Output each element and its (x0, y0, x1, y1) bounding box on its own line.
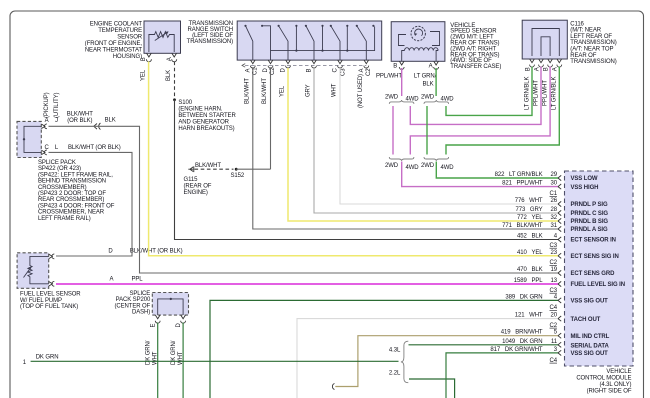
TRS pin terminals row (242, 60, 369, 68)
svg-text:BLK/WHT: BLK/WHT (67, 112, 93, 118)
label 2WD / 4WD (385, 95, 419, 103)
svg-text:ECT SENSOR IN: ECT SENSOR IN (571, 238, 616, 244)
svg-text:CONTROL MODULE: CONTROL MODULE (576, 376, 631, 382)
wire WHT 121 from bottom to VCM (297, 319, 558, 398)
svg-text:2WD: 2WD (421, 163, 435, 169)
TRS switch 5 (pin A not used) (356, 25, 375, 60)
VSS pin A terminal (429, 61, 439, 69)
svg-text:VSS SIG OUT: VSS SIG OUT (571, 351, 609, 357)
svg-text:C1: C1 (550, 191, 558, 197)
svg-text:A: A (553, 67, 559, 71)
svg-text:821 PPL/WHT: 821 PPL/WHT (502, 181, 543, 187)
svg-text:B: B (141, 57, 147, 61)
brace split 2WD/4WD (LT GRN/BLK) (424, 100, 449, 104)
svg-text:26: 26 (551, 198, 558, 204)
TRS switch 4 (pin C white) (330, 25, 349, 60)
VCM pin function names (571, 176, 625, 357)
ground arrow G115 (188, 166, 194, 172)
svg-text:28: 28 (551, 207, 558, 213)
VCM box (565, 171, 634, 366)
svg-text:VEHICLE: VEHICLE (606, 369, 631, 375)
svg-text:TACH OUT: TACH OUT (571, 317, 601, 323)
TRS switch 3 (pin B gray) (305, 25, 324, 60)
svg-text:PACK SP200: PACK SP200 (116, 297, 151, 303)
wire BLK/WHT TRS pin D to S152 (270, 68, 272, 169)
svg-text:(M/T: NEAR: (M/T: NEAR (570, 28, 601, 34)
svg-text:A: A (45, 118, 49, 124)
svg-text:YEL: YEL (280, 85, 286, 97)
svg-text:BLK: BLK (166, 70, 172, 81)
svg-text:2WD: 2WD (385, 95, 399, 101)
wire LT GRN/BLK 822 merged to VCM (436, 162, 558, 179)
svg-text:470 BLK: 470 BLK (517, 267, 543, 273)
svg-text:A: A (359, 69, 365, 73)
svg-text:SPLICE: SPLICE (129, 291, 150, 297)
svg-text:A: A (534, 67, 540, 71)
label BLK/WHT (OR BLK) stacked (67, 112, 93, 124)
svg-text:776 WHT: 776 WHT (515, 198, 543, 204)
splice pack SP200 box (152, 293, 188, 316)
svg-text:GRY: GRY (306, 84, 312, 97)
svg-text:2WD: 2WD (385, 163, 399, 169)
wire PPL/WHT 4WD branch to C116 pin A (410, 67, 541, 125)
svg-text:NEAR THERMOSTAT: NEAR THERMOSTAT (85, 47, 143, 53)
SP422 internal splice bar (23, 126, 42, 152)
svg-text:(NOT USED): (NOT USED) (358, 74, 364, 108)
SP200 pin D terminal (176, 315, 186, 327)
svg-text:410 YEL: 410 YEL (517, 250, 543, 256)
svg-text:TRANSMISSION: TRANSMISSION (189, 21, 233, 27)
svg-text:FUEL LEVEL SENSOR: FUEL LEVEL SENSOR (20, 292, 81, 298)
svg-text:4WD: 4WD (406, 97, 420, 103)
svg-text:BLK: BLK (422, 81, 433, 87)
svg-text:A: A (429, 64, 433, 70)
wire DK GRN 389 from bottom to VCM (210, 300, 558, 398)
label 2WD / 4WD (421, 163, 454, 171)
svg-text:(SP422: LEFT FRAME RAIL,: (SP422: LEFT FRAME RAIL, (38, 172, 113, 178)
svg-text:TRANSMISSION): TRANSMISSION) (187, 39, 233, 45)
svg-text:DK GRN: DK GRN (36, 354, 59, 360)
svg-text:MIL IND CTRL: MIL IND CTRL (571, 334, 610, 340)
svg-text:(FRONT OF ENGINE,: (FRONT OF ENGINE, (85, 41, 143, 47)
TRS internal common bus (271, 27, 375, 51)
wire PPL fuel sensor pin A to VCM 1589 (56, 283, 558, 285)
pin letters C L (44, 145, 58, 151)
pin letter D + label BLK/WHT (OR BLK) (108, 249, 182, 255)
svg-text:ECT SENS SIG IN: ECT SENS SIG IN (571, 254, 619, 260)
svg-text:C1: C1 (253, 67, 259, 75)
svg-text:LEFT REAR OF: LEFT REAR OF (570, 34, 612, 40)
svg-text:B: B (525, 67, 531, 71)
brace split 2WD/4WD (PPL/WHT) (389, 100, 414, 104)
svg-text:31: 31 (551, 223, 558, 229)
svg-text:VSS SIG OUT: VSS SIG OUT (571, 299, 609, 305)
svg-text:11: 11 (551, 339, 558, 345)
svg-text:LT GRN/: LT GRN/ (414, 74, 437, 80)
svg-text:(REAR OF: (REAR OF (184, 184, 212, 190)
svg-text:SPLICE PACK: SPLICE PACK (38, 160, 76, 166)
svg-text:(OR BLK): (OR BLK) (67, 118, 92, 124)
svg-text:LEFT FRAME RAIL): LEFT FRAME RAIL) (38, 216, 91, 222)
wire GRY TRS pin B to VCM 773 (314, 68, 558, 213)
svg-text:PPL: PPL (132, 276, 144, 282)
svg-text:LT GRN/BLK: LT GRN/BLK (524, 76, 530, 110)
svg-text:(UTILITY): (UTILITY) (54, 92, 60, 118)
VCM label text (576, 369, 631, 394)
wire DK GRN 1049 4.3L branch to VCM (409, 344, 559, 346)
svg-text:PRNDL P SIG: PRNDL P SIG (571, 202, 608, 208)
svg-text:20: 20 (551, 313, 558, 319)
svg-text:29: 29 (551, 172, 558, 178)
wire BLK 452 S100 to VCM (175, 100, 559, 240)
svg-text:ENGINE): ENGINE) (184, 190, 208, 196)
svg-text:FUEL LEVEL SIG IN: FUEL LEVEL SIG IN (571, 282, 625, 288)
fuel level sensor box (17, 253, 49, 288)
fuel sensor pin A terminal (49, 281, 55, 286)
switch box TRS (237, 21, 382, 60)
VCM pin arrowheads (558, 175, 561, 355)
wire LT GRN/BLK VSS pin A stem (435, 68, 437, 96)
wire BRN/WHT 419 to VCM (335, 336, 558, 387)
svg-text:C3: C3 (550, 288, 558, 294)
svg-text:121 WHT: 121 WHT (515, 313, 543, 319)
wire DK GRN/WHT 817 from bottom to VCM (446, 353, 558, 398)
svg-text:C3: C3 (550, 243, 558, 249)
wire BLK/WHT dashed to ground G115 (195, 168, 234, 170)
svg-text:4WD: 4WD (441, 97, 455, 103)
wire DK GRN/WHT SP200 pin D down (182, 323, 184, 398)
svg-text:(ENGINE HARN.: (ENGINE HARN. (178, 107, 222, 113)
sensor box VSS (391, 22, 445, 62)
label 1 DK GRN (23, 354, 59, 366)
svg-text:PPL/WHT: PPL/WHT (543, 80, 549, 106)
svg-text:PRNDL C SIG: PRNDL C SIG (571, 211, 609, 217)
svg-text:SENSOR: SENSOR (117, 34, 143, 40)
svg-text:REAR CROSSMEMBER): REAR CROSSMEMBER) (38, 197, 104, 203)
C116 label text (570, 21, 616, 65)
svg-text:19: 19 (551, 267, 558, 273)
svg-text:VSS LOW: VSS LOW (571, 176, 598, 182)
svg-text:BLK/WHT: BLK/WHT (245, 78, 251, 104)
VSS pole pieces (399, 32, 440, 46)
svg-text:ECT SENS GRD: ECT SENS GRD (571, 271, 616, 277)
svg-text:A: A (167, 57, 173, 61)
svg-text:C4: C4 (550, 305, 558, 311)
wire LT GRN/BLK 4WD branch to C116 pin B (446, 67, 532, 116)
svg-text:W/ FUEL PUMP: W/ FUEL PUMP (20, 298, 62, 304)
svg-text:BLK/WHT (OR BLK): BLK/WHT (OR BLK) (68, 145, 121, 151)
svg-text:TRANSMISSION): TRANSMISSION) (570, 40, 616, 46)
ECT pin A terminal (167, 53, 177, 62)
wire LT GRN/BLK 2WD branch (426, 106, 428, 155)
TRS switch 1 (pin A) (244, 25, 270, 60)
svg-text:32: 32 (551, 215, 558, 221)
svg-text:(TOP OF FUEL TANK): (TOP OF FUEL TANK) (20, 304, 78, 310)
svg-text:A: A (245, 69, 251, 73)
ECT pin B terminal (141, 53, 151, 62)
VSS label text (450, 23, 501, 70)
inline connector on SP422-A wire (94, 123, 101, 130)
G115 label text (184, 177, 212, 196)
TRS wire color labels (rotated) (245, 74, 365, 108)
label 2WD / 4WD (421, 95, 454, 103)
svg-text:BETWEEN STARTER: BETWEEN STARTER (178, 113, 236, 119)
svg-text:J: J (55, 118, 58, 124)
wire YEL ECT pin B to VCM 410 (149, 62, 558, 256)
svg-text:VSS HIGH: VSS HIGH (571, 185, 599, 191)
wire DK GRN 2.2L branch down (409, 379, 455, 398)
VSS tone wheel (gear) (411, 26, 425, 40)
svg-text:SP422 (OR 423): SP422 (OR 423) (38, 166, 81, 172)
fuel sensor pin D terminal (49, 254, 55, 259)
svg-text:773 GRY: 773 GRY (515, 207, 542, 213)
svg-text:AND GENERATOR: AND GENERATOR (178, 120, 229, 126)
SP422 pin C terminal (41, 150, 47, 155)
wire YEL TRS pin D to VCM 772 (288, 68, 558, 221)
svg-text:30: 30 (551, 181, 558, 187)
VCM wire row labels (490, 172, 557, 364)
svg-text:BEHIND TRANSMISSION: BEHIND TRANSMISSION (38, 179, 106, 185)
svg-text:TEMPERATURE: TEMPERATURE (98, 28, 142, 34)
svg-text:RANGE SWITCH: RANGE SWITCH (188, 27, 233, 33)
svg-text:771 BLK/WHT: 771 BLK/WHT (502, 223, 543, 229)
svg-text:LT GRN/BLK: LT GRN/BLK (552, 76, 558, 110)
svg-text:BLK/WHT: BLK/WHT (262, 78, 268, 104)
S100 label text (178, 100, 236, 132)
svg-text:(CENTER OF: (CENTER OF (115, 303, 151, 309)
ECT label text (85, 22, 143, 60)
splice pack SP422 box (17, 121, 41, 157)
VSS pickup coil (402, 48, 438, 62)
svg-text:C3: C3 (341, 68, 347, 76)
wire BLK/WHT TRS pin A to VCM 771 (253, 68, 558, 229)
SP200 pin E terminal (151, 315, 161, 327)
SP200 internal splice bar (158, 298, 183, 315)
svg-text:1049 DK GRN: 1049 DK GRN (502, 339, 542, 345)
svg-text:HOUSING): HOUSING) (113, 54, 142, 60)
wire LT GRN/BLK C116 pin A return (446, 67, 559, 155)
SP422 pin A terminal (41, 124, 47, 129)
svg-text:4WD: 4WD (441, 165, 455, 171)
splice S100 (173, 98, 176, 101)
wire BLK/WHT SP422 pin C to fuel sensor pin D (49, 152, 133, 256)
svg-text:CROSSMEMBER, NEAR: CROSSMEMBER, NEAR (38, 210, 105, 216)
svg-text:PPL/WHT: PPL/WHT (533, 80, 539, 106)
svg-text:WHT: WHT (332, 83, 338, 97)
svg-text:E: E (151, 324, 157, 328)
svg-text:B: B (393, 64, 397, 70)
svg-text:G115: G115 (184, 177, 199, 183)
splice S152 (235, 168, 238, 171)
wire BLK ECT pin A dashed segment to S100 (174, 62, 176, 97)
svg-text:B: B (307, 69, 313, 73)
svg-text:BLK/WHT: BLK/WHT (195, 163, 221, 169)
svg-text:772 YEL: 772 YEL (517, 215, 543, 221)
svg-text:S100: S100 (178, 100, 192, 106)
svg-text:822 LT GRN/BLK: 822 LT GRN/BLK (495, 172, 543, 178)
brace merge 2WD/4WD (LT GRN/BLK) (424, 157, 449, 161)
svg-text:ENGINE COOLANT: ENGINE COOLANT (90, 22, 143, 28)
svg-text:PRNDL B SIG: PRNDL B SIG (571, 219, 609, 225)
svg-text:2WD: 2WD (421, 95, 435, 101)
svg-text:(A/T: NEAR TOP: (A/T: NEAR TOP (570, 47, 613, 53)
C116 internal link A-B inner (541, 37, 550, 56)
svg-text:C2: C2 (550, 260, 558, 266)
svg-text:C2: C2 (366, 68, 372, 76)
pin letters A J (45, 118, 58, 124)
svg-text:DASH): DASH) (132, 310, 150, 316)
svg-text:CROSSMEMBER): CROSSMEMBER) (38, 185, 87, 191)
wire BLK/WHT S152 to TRS pin D (236, 168, 270, 170)
svg-text:SERIAL DATA: SERIAL DATA (571, 343, 610, 349)
fuel sender variable resistor (24, 256, 49, 283)
TRS label text (187, 21, 234, 45)
wire PPL/WHT 821 merged to VCM (402, 162, 558, 187)
svg-text:(RIGHT SIDE OF: (RIGHT SIDE OF (587, 388, 632, 394)
svg-text:23: 23 (551, 250, 558, 256)
wire PPL/WHT VSS pin B stem (401, 68, 403, 96)
connector C116 box (522, 20, 567, 59)
thermistor ECT element (149, 31, 174, 52)
SP200 wire labels DK GRN/WHT rotated (146, 340, 185, 365)
svg-text:TRANSFER CASE): TRANSFER CASE) (450, 64, 501, 70)
wire WHT TRS pin C to VCM 776 (340, 68, 558, 204)
svg-text:REAR OF: REAR OF (570, 53, 596, 59)
svg-text:1589 PPL: 1589 PPL (514, 278, 543, 284)
svg-text:PRNDL A SIG: PRNDL A SIG (571, 227, 608, 233)
brace merge 2WD/4WD (PPL/WHT) (389, 157, 414, 161)
svg-text:4WD: 4WD (406, 165, 420, 171)
svg-text:BLK/WHT (OR BLK): BLK/WHT (OR BLK) (130, 249, 183, 255)
svg-text:4.3L: 4.3L (389, 348, 401, 354)
svg-text:PPL/WHT: PPL/WHT (376, 74, 402, 80)
fuel sensor label text (20, 292, 81, 311)
svg-text:13: 13 (551, 278, 558, 284)
TRS switch 2 (pin D yellow) (278, 25, 298, 60)
svg-text:419 BRN/WHT: 419 BRN/WHT (501, 330, 543, 336)
SP422 label text (38, 160, 115, 222)
wire DK GRN main horizontal (31, 360, 399, 362)
svg-text:B: B (543, 67, 549, 71)
svg-text:YEL: YEL (141, 69, 147, 81)
wire PPL/WHT C116 pin B return (410, 67, 550, 155)
svg-text:TRANSMISSION): TRANSMISSION) (570, 59, 616, 65)
VSS pin B terminal (393, 61, 404, 69)
label 2WD / 4WD (385, 163, 419, 171)
svg-text:S152: S152 (231, 173, 245, 179)
sensor box ECT (144, 21, 181, 53)
wire PPL/WHT 2WD branch (392, 106, 394, 155)
TRS pin letters and connector ids (245, 67, 372, 76)
svg-text:(4.3L ONLY): (4.3L ONLY) (599, 382, 631, 388)
SP200 label text (115, 291, 151, 316)
svg-text:BLK: BLK (105, 118, 116, 124)
svg-text:452 BLK: 452 BLK (517, 234, 543, 240)
svg-text:(SP423 4 DOOR: FRONT OF: (SP423 4 DOOR: FRONT OF (38, 203, 115, 209)
pin letter A + label PPL (109, 276, 143, 282)
C116 pin terminals (530, 59, 562, 67)
wire DK GRN/WHT SP200 pin E down (157, 323, 159, 398)
svg-text:C116: C116 (570, 21, 584, 27)
svg-text:A: A (109, 276, 113, 282)
svg-text:C2: C2 (550, 323, 558, 329)
svg-text:389 DK GRN: 389 DK GRN (505, 294, 542, 300)
terminal arc on BRN/WHT wire (332, 384, 334, 390)
C116 pin letters (525, 67, 558, 71)
C116 wire color labels (rotated) (524, 76, 557, 110)
brace engine variants 4.3L/2.2L (401, 341, 408, 383)
wire BLK/WHT SP422 pin A to VCM 470 (49, 126, 559, 273)
svg-text:817 DK GRN/WHT: 817 DK GRN/WHT (490, 347, 543, 353)
svg-text:C4: C4 (550, 358, 558, 364)
svg-text:HARN BREAKOUTS): HARN BREAKOUTS) (178, 126, 234, 132)
label LT GRN/BLK (414, 74, 437, 88)
svg-text:(SP423 2 DOOR: TOP OF: (SP423 2 DOOR: TOP OF (38, 191, 106, 197)
svg-text:(PICKUP): (PICKUP) (44, 92, 50, 118)
svg-text:2.2L: 2.2L (389, 371, 401, 377)
C116 internal link B-A outer (532, 29, 559, 57)
